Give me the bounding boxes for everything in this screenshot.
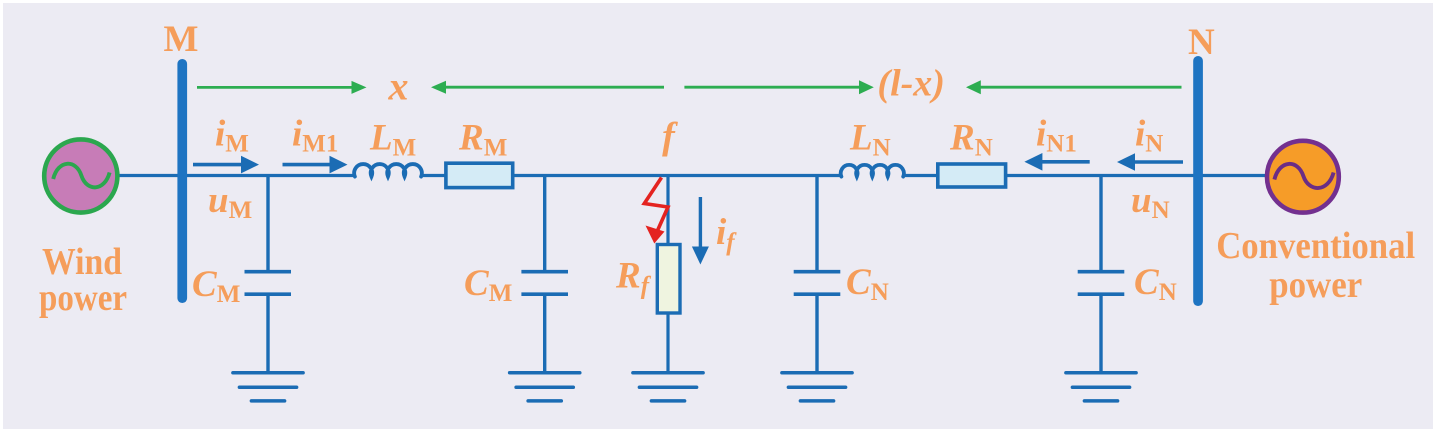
fault current arrow i_f [699,197,702,249]
wind power source G1 [44,139,117,212]
ground 4 [1066,373,1136,401]
conventional source sine [1274,164,1333,188]
wire bus M to L_M [182,174,356,177]
svg-text:(l-x): (l-x) [877,63,945,105]
capacitor branch C_N 2 [1099,176,1102,271]
ground 1 [233,373,303,401]
svg-text:power: power [39,277,127,319]
current arrow i_N [1117,153,1135,171]
wire R_f to ground [666,313,669,371]
wire R_N to bus N [1004,174,1197,177]
ground fault [633,373,703,401]
svg-text:N: N [1188,22,1215,63]
wire L_M to R_M [420,174,447,177]
wind source sine [53,164,109,188]
lightning bolt [644,178,668,236]
inductor L_M [354,164,422,177]
conventional power source G2 [1267,141,1339,213]
capacitor branch C_M 2 [543,176,546,271]
current arrow i_M1 [283,163,332,167]
ground 3 [782,373,852,401]
wire bus N to source [1199,174,1266,177]
current arrow i_M [193,163,243,167]
green arrow x right [197,86,353,89]
capacitor branch C_M 1 [266,176,269,271]
bus M [177,59,187,303]
green arrow x left [431,81,446,94]
svg-text:power: power [1269,264,1362,306]
svg-text:M: M [164,19,199,60]
green arrow (l-x) right [684,86,860,89]
current arrow i_N1 [1024,153,1042,171]
fault wire down [666,176,669,246]
green arrow (l-x) left [966,80,981,94]
capacitor branch C_N 1 [815,176,818,271]
wire M-source to bus M [118,174,180,177]
resistor R_M [446,163,513,187]
ground 2 [510,373,580,401]
svg-text:Conventional: Conventional [1216,225,1415,267]
inductor L_N [841,165,904,177]
fault resistor R_f [657,245,680,314]
svg-text:x: x [388,64,409,109]
wire R_M to L_N [511,174,842,177]
resistor R_N [938,164,1006,187]
bus N [1193,56,1203,306]
wire L_N to R_N [903,174,939,177]
